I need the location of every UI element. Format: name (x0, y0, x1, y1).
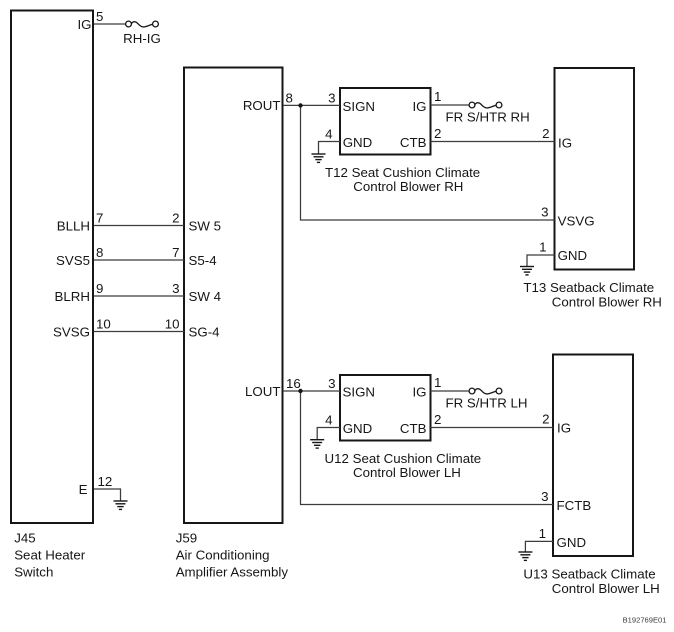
svg-text:1: 1 (539, 240, 546, 255)
svg-text:5: 5 (96, 9, 103, 24)
svg-text:3: 3 (328, 376, 335, 391)
svg-text:E: E (79, 482, 88, 497)
svg-text:4: 4 (325, 413, 332, 428)
svg-text:IG: IG (412, 99, 426, 114)
svg-text:T12 Seat Cushion Climate: T12 Seat Cushion Climate (325, 165, 480, 180)
svg-text:Air Conditioning: Air Conditioning (176, 548, 270, 563)
svg-text:GND: GND (343, 421, 373, 436)
svg-text:2: 2 (542, 126, 549, 141)
svg-text:8: 8 (286, 90, 293, 105)
svg-text:T13 Seatback Climate: T13 Seatback Climate (523, 280, 654, 295)
svg-text:BLLH: BLLH (57, 218, 90, 233)
svg-text:9: 9 (96, 281, 103, 296)
svg-text:SIGN: SIGN (343, 99, 376, 114)
svg-text:SG-4: SG-4 (189, 325, 220, 340)
svg-text:7: 7 (172, 245, 179, 260)
svg-text:S5-4: S5-4 (189, 253, 217, 268)
svg-text:16: 16 (286, 376, 301, 391)
svg-text:2: 2 (434, 126, 441, 141)
svg-text:SIGN: SIGN (343, 385, 376, 400)
svg-text:IG: IG (557, 420, 571, 435)
svg-text:J59: J59 (176, 531, 197, 546)
svg-text:Switch: Switch (14, 565, 53, 580)
svg-text:12: 12 (98, 474, 113, 489)
svg-text:Seat Heater: Seat Heater (14, 548, 86, 563)
svg-text:IG: IG (412, 385, 426, 400)
svg-text:3: 3 (541, 489, 548, 504)
svg-text:U12 Seat Cushion Climate: U12 Seat Cushion Climate (325, 451, 482, 466)
svg-text:GND: GND (343, 135, 373, 150)
svg-text:8: 8 (96, 245, 103, 260)
svg-text:B192769E01: B192769E01 (623, 616, 667, 625)
svg-text:SW 5: SW 5 (189, 219, 222, 234)
svg-text:10: 10 (165, 317, 180, 332)
svg-text:2: 2 (434, 412, 441, 427)
svg-text:3: 3 (172, 281, 179, 296)
svg-text:2: 2 (172, 211, 179, 226)
svg-text:RH-IG: RH-IG (123, 31, 161, 46)
svg-text:Control Blower LH: Control Blower LH (353, 465, 461, 480)
svg-text:10: 10 (96, 317, 111, 332)
svg-text:1: 1 (434, 375, 441, 390)
svg-text:SVSG: SVSG (53, 324, 90, 339)
svg-text:Control Blower RH: Control Blower RH (552, 295, 662, 310)
svg-text:CTB: CTB (400, 135, 427, 150)
svg-text:1: 1 (434, 89, 441, 104)
svg-text:Amplifier Assembly: Amplifier Assembly (176, 565, 289, 580)
svg-text:7: 7 (96, 211, 103, 226)
svg-text:SW 4: SW 4 (189, 289, 222, 304)
svg-text:Control Blower LH: Control Blower LH (552, 581, 660, 596)
svg-text:LOUT: LOUT (245, 384, 280, 399)
svg-text:3: 3 (328, 90, 335, 105)
svg-text:3: 3 (541, 205, 548, 220)
svg-text:CTB: CTB (400, 421, 427, 436)
svg-text:BLRH: BLRH (55, 289, 90, 304)
svg-text:U13 Seatback Climate: U13 Seatback Climate (523, 567, 655, 582)
svg-text:ROUT: ROUT (243, 98, 281, 113)
svg-text:4: 4 (325, 127, 332, 142)
svg-text:1: 1 (539, 526, 546, 541)
svg-text:GND: GND (558, 248, 588, 263)
svg-text:GND: GND (557, 535, 587, 550)
svg-text:SVS5: SVS5 (56, 253, 90, 268)
svg-text:VSVG: VSVG (558, 213, 595, 228)
svg-text:FR S/HTR LH: FR S/HTR LH (446, 396, 528, 411)
svg-text:J45: J45 (14, 531, 35, 546)
svg-text:2: 2 (542, 412, 549, 427)
svg-text:FCTB: FCTB (557, 498, 592, 513)
svg-text:FR S/HTR RH: FR S/HTR RH (446, 110, 530, 125)
svg-text:Control Blower RH: Control Blower RH (353, 179, 463, 194)
svg-text:IG: IG (558, 135, 572, 150)
svg-text:IG: IG (77, 17, 91, 32)
